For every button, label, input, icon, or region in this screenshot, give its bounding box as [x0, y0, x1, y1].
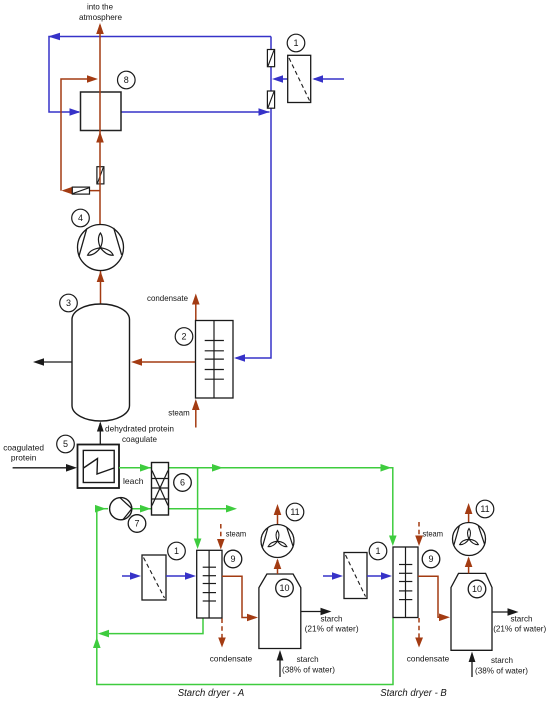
svg-text:(38% of water): (38% of water)	[475, 666, 528, 676]
fan 4	[78, 225, 124, 305]
node label circle 11B	[476, 500, 494, 518]
damper V4 on bypass	[72, 187, 89, 194]
node label circle 6	[174, 474, 192, 492]
wire: red dryer 10B to fan 11B	[468, 558, 470, 573]
wire: black dehydrated coagulate feed to vessel	[99, 423, 101, 445]
pump 7	[110, 498, 132, 520]
svg-text:steam: steam	[226, 529, 247, 539]
heat recovery exchanger 8	[81, 92, 122, 131]
node label circle 9A	[224, 550, 242, 568]
wire: black wet starch feed into dryer A	[279, 660, 281, 677]
svg-text:starch: starch	[297, 654, 319, 664]
node label circle 4	[72, 209, 90, 227]
wire: blue heat-recovery outlet duct	[121, 111, 270, 113]
wire: green leach return from heater 9A	[100, 618, 203, 634]
node label circle 3	[60, 294, 78, 312]
svg-text:10: 10	[279, 583, 289, 593]
svg-text:starch: starch	[491, 655, 513, 665]
node label circle 1A	[168, 542, 186, 560]
damper V3 on riser	[97, 167, 104, 184]
wire: blue air inlet A	[122, 575, 136, 577]
node label circle 11A	[286, 503, 304, 521]
node label circle 10A	[276, 579, 294, 597]
svg-text:4: 4	[78, 213, 83, 223]
node label circle 1 (top)	[287, 34, 305, 52]
air heater 9B	[393, 547, 418, 618]
svg-text:coagulate: coagulate	[122, 434, 157, 444]
leach cooler 6	[152, 463, 169, 516]
svg-text:condensate: condensate	[210, 654, 253, 664]
wire: red hot air into dryer vessel	[140, 361, 196, 363]
air filter 1 (top)	[288, 55, 311, 102]
svg-text:(21% of water): (21% of water)	[305, 624, 359, 634]
svg-text:leach: leach	[123, 476, 144, 486]
fan 11B	[453, 503, 486, 556]
svg-text:into the: into the	[87, 2, 113, 12]
air heater 9A	[197, 550, 222, 618]
starch dryer bin 10A	[259, 574, 301, 649]
svg-text:2: 2	[181, 332, 186, 342]
node label circle 8	[118, 71, 136, 89]
svg-text:1: 1	[174, 546, 179, 556]
svg-text:11: 11	[480, 504, 489, 514]
svg-text:atmosphere: atmosphere	[79, 12, 122, 22]
wire: red dryer 10A to fan 11A	[277, 560, 279, 574]
wire: blue air inlet B	[323, 575, 338, 577]
wire: blue fresh-air top duct	[49, 37, 271, 113]
svg-text:dehydrated protein: dehydrated protein	[105, 424, 174, 434]
wire: green leach line box5 to exchanger 6 and to dryer trains	[119, 468, 393, 540]
svg-text:9: 9	[230, 554, 235, 564]
svg-text:steam: steam	[168, 408, 190, 418]
svg-text:5: 5	[63, 439, 68, 449]
wire: black starch product out of dryer B	[492, 611, 509, 613]
svg-text:protein: protein	[11, 453, 37, 463]
wire: blue filter-1 outlet	[275, 78, 288, 80]
wire: green branch down to heater 9A	[197, 468, 199, 540]
svg-text:starch: starch	[321, 614, 343, 624]
svg-text:3: 3	[66, 298, 71, 308]
wire: red exhaust through box 8 to atmosphere	[99, 25, 101, 225]
svg-text:7: 7	[134, 519, 139, 529]
wire: black starch product out of dryer A	[301, 611, 322, 613]
svg-text:starch: starch	[511, 614, 533, 624]
wire: red bypass branch	[64, 190, 100, 192]
node label circle 5	[57, 435, 75, 453]
flash dryer vessel 3	[72, 304, 130, 421]
node label circle 10B	[468, 580, 486, 598]
wire: blue main vertical duct	[236, 37, 271, 359]
wire: black product outlet of vessel 3	[42, 361, 72, 363]
wire: black wet starch feed into dryer B	[471, 661, 473, 677]
wire: blue air inlet	[314, 78, 344, 80]
wire: green leach return from heater 9B (bottom loop)	[97, 510, 393, 685]
node label circle 1B	[369, 542, 387, 560]
node label circle 7	[128, 515, 146, 533]
wire: blue filter to heater A	[166, 575, 188, 577]
svg-text:10: 10	[472, 584, 482, 594]
wire: black coagulated protein feed	[13, 467, 68, 469]
svg-text:Starch dryer - A: Starch dryer - A	[178, 688, 245, 699]
extruder / dewatering press 5	[78, 445, 120, 489]
wire: green pump suction	[97, 508, 108, 510]
wire: red dashed steam into heater 9B	[418, 522, 420, 538]
wire: red hot air heater 9A to dryer 10A	[222, 576, 250, 617]
svg-text:(38% of water): (38% of water)	[282, 665, 335, 675]
wire: red hot air heater 9B to dryer 10B	[418, 576, 443, 617]
wire: red dashed steam into heater 9A	[220, 524, 222, 541]
svg-text:(21% of water): (21% of water)	[493, 624, 546, 634]
damper V1 on vertical duct	[267, 50, 274, 67]
node label circle 9B	[422, 550, 440, 568]
node label circle 2	[175, 328, 193, 346]
steam heater 2	[192, 294, 233, 428]
air filter 1B	[344, 553, 367, 599]
svg-text:6: 6	[180, 478, 185, 488]
damper V2 on vertical duct	[267, 91, 274, 108]
svg-text:8: 8	[124, 75, 129, 85]
wire: red dashed condensate from heater 9A	[221, 619, 223, 641]
svg-text:9: 9	[428, 554, 433, 564]
wire: blue filter to heater B	[367, 575, 384, 577]
svg-text:condensate: condensate	[147, 293, 188, 303]
svg-text:1: 1	[293, 38, 298, 48]
svg-text:steam: steam	[423, 529, 444, 539]
svg-text:Starch dryer - B: Starch dryer - B	[380, 688, 447, 699]
svg-text:1: 1	[375, 546, 380, 556]
starch dryer bin 10B	[451, 573, 492, 650]
air filter 1A	[142, 555, 166, 600]
wire: green pump discharge through exchanger 6	[132, 508, 235, 510]
fan 11A	[261, 504, 294, 558]
svg-text:condensate: condensate	[407, 654, 450, 664]
svg-text:coagulated: coagulated	[3, 443, 44, 453]
svg-text:11: 11	[290, 507, 299, 517]
wire: red dashed condensate from heater 9B	[418, 618, 420, 640]
